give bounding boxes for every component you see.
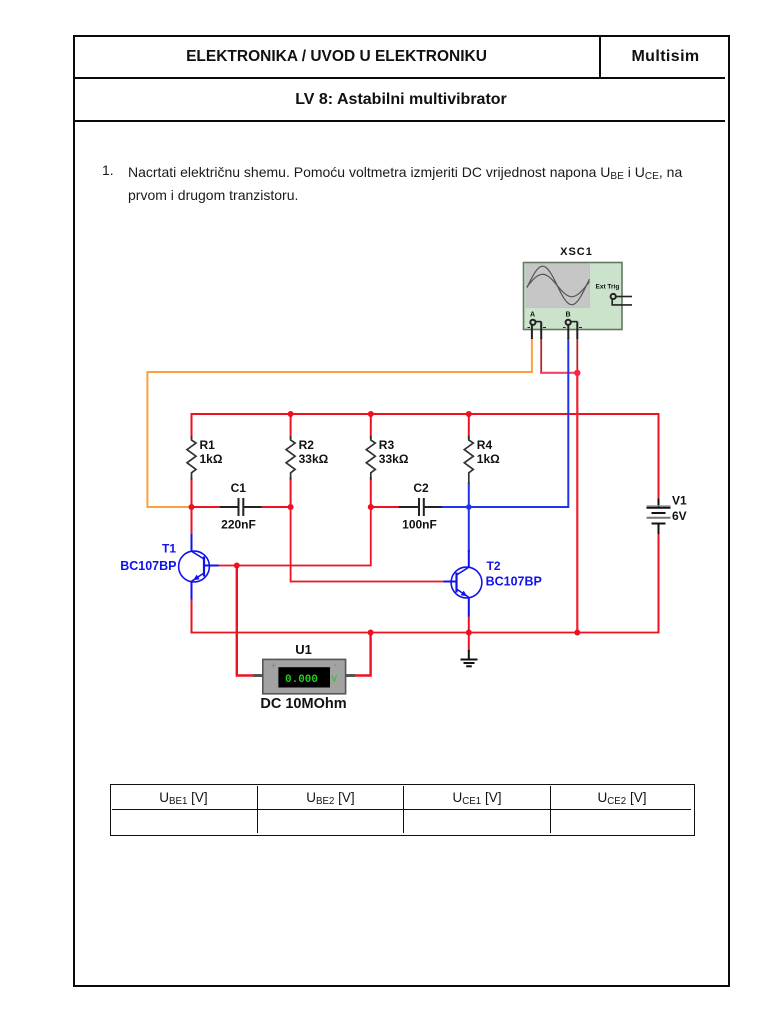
- resistor R4: [464, 436, 473, 484]
- wire base to voltmeter plus: [237, 566, 254, 676]
- oscilloscope XSC1 body: [524, 263, 623, 330]
- ground: [461, 650, 478, 666]
- svg-text:T1: T1: [162, 542, 176, 556]
- svg-text:+: +: [271, 661, 276, 670]
- title: Multisim: [601, 48, 730, 66]
- wire top supply bus: [192, 413, 659, 415]
- svg-text:V: V: [332, 674, 338, 684]
- paragraph number: [102, 162, 114, 178]
- svg-text:V1: V1: [672, 494, 687, 508]
- battery V1: [647, 499, 671, 535]
- wire T2 collector from node: [468, 507, 470, 551]
- svg-text:T2: T2: [487, 559, 501, 573]
- svg-text:C2: C2: [413, 481, 429, 495]
- voltmeter U1 body: [253, 659, 355, 693]
- svg-text:BC107BP: BC107BP: [486, 575, 542, 589]
- svg-text:R3: R3: [379, 438, 395, 452]
- wire scope grounds join: [541, 372, 577, 374]
- title row2: LV 8: [74, 91, 728, 109]
- junction node R4 top: [466, 411, 472, 417]
- wire scope A orange to T1 collector node: [147, 339, 532, 507]
- resistor R1: [187, 436, 196, 480]
- oscilloscope trace channel B: [527, 274, 590, 296]
- wire R4 top lead: [468, 414, 470, 438]
- wire scope B ground drop: [576, 339, 578, 373]
- wire scope A ground drop: [540, 339, 542, 373]
- svg-text:R4: R4: [477, 438, 493, 452]
- svg-text:C1: C1: [231, 481, 247, 495]
- svg-text:B: B: [566, 312, 571, 319]
- wire C1 right: [262, 506, 291, 508]
- svg-text:R1: R1: [200, 438, 216, 452]
- wire T2 emitter: [468, 617, 470, 633]
- oscilloscope terminal A: [528, 320, 547, 339]
- title: ELEKTRONIKA / UVOD U ELEKTRONIKU: [74, 48, 599, 66]
- wire R4 bottom lead blue: [468, 484, 470, 508]
- svg-text:U1: U1: [295, 642, 312, 657]
- svg-text:XSC1: XSC1: [560, 246, 593, 258]
- wire V1 top: [658, 414, 660, 499]
- svg-text:100nF: 100nF: [402, 518, 437, 532]
- oscilloscope trace channel A: [527, 266, 590, 305]
- wire T2 emitter to ground: [468, 633, 470, 651]
- junction node C1 right: [288, 504, 294, 510]
- svg-text:1kΩ: 1kΩ: [200, 452, 223, 466]
- resistor R3: [366, 436, 375, 480]
- svg-text:Ext Trig: Ext Trig: [596, 284, 620, 291]
- wire voltmeter minus to bus: [355, 633, 371, 676]
- wire T1 emitter: [191, 600, 193, 633]
- svg-text:33kΩ: 33kΩ: [299, 452, 329, 466]
- wire bottom emitter bus: [192, 632, 659, 634]
- wire R2 bottom lead: [290, 478, 292, 507]
- wire scope B blue to T2 collector node: [469, 339, 569, 507]
- wire R1 bottom lead: [191, 478, 193, 507]
- junction node T2 emitter bus: [466, 630, 472, 636]
- header row 2 divider: [75, 120, 725, 122]
- header row divider (bottom of row 1): [75, 77, 725, 79]
- outer page frame: [73, 35, 730, 987]
- wire V1 bottom: [658, 534, 660, 633]
- wire C1 left: [192, 506, 221, 508]
- wire scope ground to bus: [576, 373, 578, 633]
- capacitor C1: [220, 498, 262, 516]
- junction node R3 top: [368, 411, 374, 417]
- svg-text:6V: 6V: [672, 509, 687, 523]
- wire R3 bottom lead: [370, 478, 372, 507]
- svg-text:1kΩ: 1kΩ: [477, 452, 500, 466]
- junction node T2 collector: [466, 504, 472, 510]
- junction node R2 top: [288, 411, 294, 417]
- svg-text:33kΩ: 33kΩ: [379, 452, 409, 466]
- wire C2 left: [371, 506, 399, 508]
- junction node scope ground bus: [574, 630, 580, 636]
- oscilloscope terminal B: [563, 320, 582, 339]
- junction node T1 collector: [189, 504, 195, 510]
- svg-text:DC 10MOhm: DC 10MOhm: [260, 696, 346, 712]
- junction node C2 left: [368, 504, 374, 510]
- resistor R2: [286, 436, 295, 480]
- transistor T1: [179, 534, 219, 600]
- capacitor C2: [399, 498, 442, 516]
- paragraph text: [128, 162, 728, 207]
- svg-text:220nF: 220nF: [221, 518, 256, 532]
- wire R3 to T1 base: [219, 507, 371, 566]
- svg-text:A: A: [530, 312, 535, 319]
- measurement table: [110, 784, 695, 836]
- svg-text:0.000: 0.000: [285, 674, 318, 686]
- oscilloscope ext trig terminal: [611, 294, 632, 305]
- transistor T2: [444, 550, 482, 617]
- wire R3 top lead: [370, 414, 372, 438]
- svg-text:R2: R2: [299, 438, 315, 452]
- wire T1 collector: [191, 507, 193, 534]
- wire R2 top lead: [290, 414, 292, 438]
- vertical divider of Multisim cell: [599, 37, 601, 78]
- wire C2 right blue: [442, 506, 469, 508]
- svg-text:BC107BP: BC107BP: [120, 559, 176, 573]
- wire R1 top lead: [191, 414, 193, 438]
- junction node scope ground: [574, 370, 580, 376]
- svg-text:-: -: [334, 660, 337, 669]
- junction node T1 base: [234, 563, 240, 569]
- junction node voltmeter minus bus: [368, 630, 374, 636]
- wire R2 to T2 base: [291, 507, 444, 582]
